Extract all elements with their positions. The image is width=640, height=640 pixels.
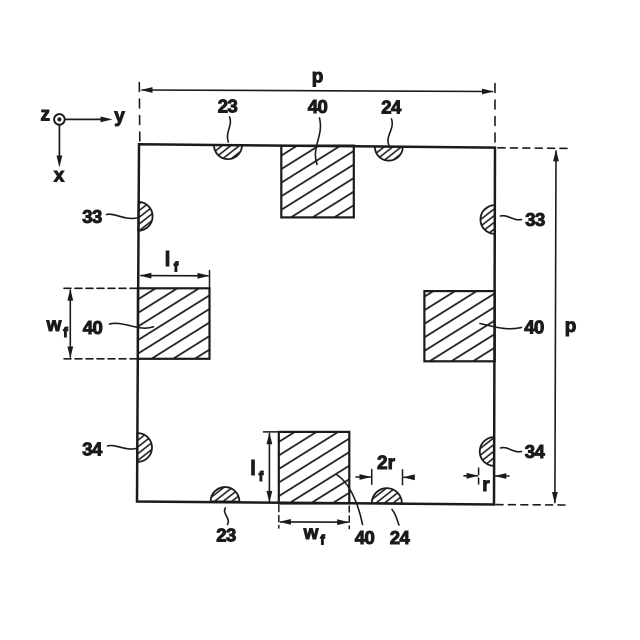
dimension p top: line with arrows xyxy=(142,90,493,92)
dimension p right: extension dashed lines xyxy=(498,147,567,150)
semicircle 24 top edge xyxy=(375,147,403,161)
svg-text:p: p xyxy=(565,316,577,337)
rect 40 left-middle xyxy=(138,288,210,359)
rect 40 right-middle xyxy=(424,291,494,361)
svg-text:34: 34 xyxy=(82,439,103,460)
semicircle 23 bottom edge xyxy=(211,487,240,502)
semicircle 23 top edge xyxy=(214,145,242,159)
dimension w_f left: line with arrows xyxy=(69,290,71,357)
svg-text:24: 24 xyxy=(390,527,411,548)
svg-text:23: 23 xyxy=(218,96,238,117)
svg-text:x: x xyxy=(54,166,65,187)
dimension w_f bottom: line with arrows xyxy=(280,521,347,523)
dimension r: tick xyxy=(478,468,480,484)
svg-text:w: w xyxy=(303,523,319,544)
dimension l_f bottom xyxy=(264,431,279,433)
svg-text:y: y xyxy=(114,106,125,127)
svg-text:f: f xyxy=(63,324,68,340)
svg-text:f: f xyxy=(259,468,264,484)
coordinate axes origin circle (z out of page) xyxy=(54,114,65,125)
semicircle 34 right edge xyxy=(480,437,494,466)
svg-text:f: f xyxy=(320,532,325,548)
dimension l_f top-left xyxy=(209,271,211,289)
semicircle 34 left edge xyxy=(138,433,153,462)
dimension w_f bottom: dashed extension lines xyxy=(278,506,280,529)
semicircle 33 left edge xyxy=(138,202,152,231)
main square outline xyxy=(137,144,495,504)
dimension 2r: outside arrows xyxy=(356,476,371,478)
dimension r: outside arrows xyxy=(464,475,478,477)
svg-text:w: w xyxy=(46,315,62,336)
svg-text:l: l xyxy=(250,458,256,480)
svg-text:34: 34 xyxy=(525,441,546,462)
y axis arrow xyxy=(66,118,107,120)
rect 40 top-center xyxy=(281,146,354,218)
svg-text:40: 40 xyxy=(355,527,375,548)
svg-text:r: r xyxy=(482,475,490,496)
svg-text:40: 40 xyxy=(83,317,103,338)
dimension p top: extension dashed lines xyxy=(138,83,141,142)
svg-text:40: 40 xyxy=(524,317,544,338)
svg-text:p: p xyxy=(312,67,324,88)
rect 40 bottom-center xyxy=(279,432,350,504)
dimension w_f left: dashed extension lines xyxy=(64,287,137,289)
svg-text:33: 33 xyxy=(525,209,545,230)
svg-text:f: f xyxy=(174,259,179,275)
semicircle 24 bottom edge xyxy=(372,488,402,503)
dimension 2r: ticks xyxy=(371,470,373,485)
svg-text:2r: 2r xyxy=(377,453,396,474)
dimension p right: line with arrows xyxy=(555,151,556,503)
svg-text:z: z xyxy=(41,105,51,126)
svg-text:40: 40 xyxy=(308,96,328,117)
svg-text:24: 24 xyxy=(381,97,402,118)
svg-text:33: 33 xyxy=(82,206,102,227)
svg-text:l: l xyxy=(165,249,171,271)
svg-text:23: 23 xyxy=(216,525,236,546)
semicircle 33 right edge xyxy=(480,205,494,234)
x axis arrow xyxy=(58,126,60,162)
